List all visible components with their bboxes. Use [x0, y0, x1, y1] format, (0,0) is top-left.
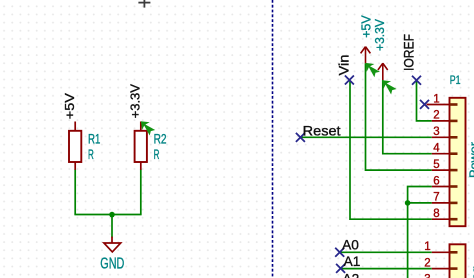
svg-text:Reset: Reset [303, 123, 341, 138]
svg-text:Power: Power [467, 142, 474, 178]
svg-text:1: 1 [424, 241, 430, 253]
svg-text:7: 7 [433, 192, 439, 204]
svg-text:Vin: Vin [337, 55, 352, 76]
svg-text:1: 1 [433, 93, 439, 105]
svg-text:A0: A0 [342, 238, 359, 253]
svg-text:3: 3 [424, 274, 430, 278]
svg-text:2: 2 [433, 110, 439, 122]
svg-text:5: 5 [433, 159, 439, 171]
svg-text:IOREF: IOREF [401, 34, 417, 71]
svg-text:6: 6 [433, 175, 439, 187]
svg-text:8: 8 [433, 208, 439, 220]
svg-text:GND: GND [100, 255, 124, 272]
svg-text:R: R [88, 146, 94, 162]
svg-text:+3.3V: +3.3V [372, 19, 387, 51]
svg-text:A2: A2 [343, 271, 360, 278]
svg-text:A1: A1 [344, 254, 361, 269]
svg-text:+5V: +5V [62, 93, 77, 119]
svg-text:R2: R2 [154, 131, 167, 147]
svg-text:Analog: Analog [469, 266, 474, 278]
svg-text:4: 4 [433, 143, 440, 155]
svg-text:+3.3V: +3.3V [127, 84, 142, 119]
svg-text:2: 2 [424, 257, 430, 269]
svg-text:P1: P1 [450, 73, 461, 87]
svg-text:3: 3 [433, 126, 439, 138]
svg-text:R1: R1 [88, 131, 101, 147]
svg-text:R: R [154, 146, 160, 162]
